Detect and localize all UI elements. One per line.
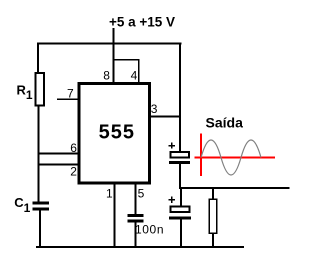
- wire output rail to the right: [179, 187, 290, 189]
- wire load resistor bottom lead: [212, 234, 214, 248]
- svg-text:5: 5: [138, 187, 145, 201]
- wire V+ feed from label to top rail and pin 8: [113, 28, 115, 83]
- wire pin 1 to ground rail: [113, 184, 115, 248]
- wire pin 4 jog to pin 8 line: [113, 59, 140, 83]
- wire C1 to ground rail: [39, 211, 41, 248]
- svg-text:+5 a +15 V: +5 a +15 V: [109, 15, 175, 30]
- resistor R1: [35, 73, 44, 105]
- wire ground bottom rail: [36, 246, 244, 248]
- waveform axis horizontal red: [195, 157, 276, 159]
- IC U1 555 timer body: [79, 83, 149, 183]
- capacitor C2 electrolytic plus sign: [169, 142, 175, 148]
- wire left vertical from rail to R1: [37, 42, 39, 73]
- svg-text:8: 8: [103, 69, 110, 83]
- wire top V+ rail: [37, 42, 181, 44]
- wire C2 bottom to output rail: [179, 164, 181, 189]
- wire pin 5 to 100n capacitor: [134, 184, 136, 215]
- capacitor 100n plates: [128, 214, 144, 222]
- svg-text:100n: 100n: [135, 223, 164, 237]
- wire load resistor top lead: [212, 188, 214, 199]
- svg-text:Saída: Saída: [206, 115, 244, 131]
- svg-text:4: 4: [131, 69, 138, 83]
- svg-text:3: 3: [151, 102, 158, 116]
- svg-text:1: 1: [106, 187, 113, 201]
- wire R1 bottom to C1: [38, 106, 40, 203]
- capacitor C1 plates: [33, 201, 50, 210]
- capacitor C2 electrolytic plates: [169, 152, 190, 164]
- capacitor C3 electrolytic plates: [169, 206, 191, 219]
- wire pin 6 to left rail: [38, 153, 79, 155]
- wire C3 top lead: [180, 188, 182, 206]
- waveform axis vertical red: [200, 133, 202, 176]
- svg-text:555: 555: [99, 122, 135, 144]
- wire C3 bottom to ground rail: [180, 220, 182, 248]
- svg-text:2: 2: [70, 164, 77, 178]
- sine waveform: [201, 140, 261, 175]
- resistor R2 load: [209, 199, 217, 233]
- wire pin 2 to left rail: [38, 164, 79, 166]
- wire pin 3 output to right vertical: [151, 116, 182, 118]
- wire right vertical from V+ rail down to C2: [179, 42, 181, 151]
- capacitor C3 electrolytic plus sign: [169, 197, 175, 203]
- wire pin 7 stub: [57, 99, 79, 101]
- svg-text:7: 7: [67, 86, 74, 100]
- wire 100n capacitor to ground rail: [134, 223, 136, 248]
